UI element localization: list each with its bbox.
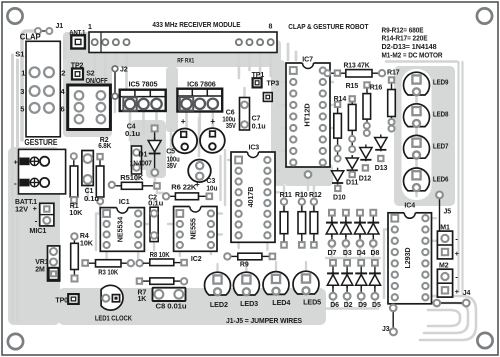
resistor R13 47K — [325, 70, 386, 77]
svg-text:+: + — [14, 160, 18, 167]
label C5 100u 35V — [166, 149, 179, 171]
cathode pad D13 — [378, 156, 383, 161]
svg-text:D6: D6 — [330, 302, 339, 309]
svg-text:R3 10K: R3 10K — [98, 270, 118, 277]
cathode pad D12 — [363, 165, 368, 170]
copper pour: below IC7 — [284, 164, 333, 186]
capacitor C3 10u — [188, 160, 211, 183]
svg-text:C3: C3 — [206, 178, 215, 185]
svg-text:-: - — [14, 179, 17, 188]
svg-text:GESTURE: GESTURE — [24, 138, 57, 147]
label S2 ON/OFF — [86, 71, 109, 86]
switch S1 — [26, 41, 60, 137]
svg-text:35V: 35V — [226, 123, 236, 130]
trace IC1 IC2 pad stubs — [96, 214, 103, 251]
svg-text:LED1 CLOCK: LED1 CLOCK — [95, 315, 132, 322]
svg-text:R9: R9 — [240, 262, 249, 269]
trace IC3 pad stubs — [228, 159, 235, 161]
trace IC7 pad stubs — [279, 81, 289, 83]
svg-text:1N4007: 1N4007 — [130, 161, 152, 168]
cathode pad D11 — [350, 172, 355, 177]
trace IC3 area — [237, 239, 239, 248]
svg-text:0.1u: 0.1u — [252, 123, 266, 130]
via pad below IC7 — [305, 171, 312, 178]
svg-text:R13 47K: R13 47K — [344, 63, 370, 70]
svg-text:D13: D13 — [375, 165, 388, 172]
svg-text:12V: 12V — [15, 207, 28, 214]
resistor R12 — [310, 199, 318, 248]
svg-text:C1: C1 — [85, 188, 94, 195]
antenna pad ANT.1 — [71, 35, 85, 48]
label C6 100u 35V — [222, 109, 236, 130]
svg-text:S2: S2 — [86, 71, 95, 78]
diode D6 — [327, 260, 338, 300]
mounting hole top-right — [477, 8, 492, 23]
svg-text:TP1: TP1 — [252, 72, 265, 79]
svg-text:D5: D5 — [372, 302, 381, 309]
svg-text:D1: D1 — [139, 152, 148, 159]
svg-text:R17: R17 — [387, 70, 400, 77]
svg-text:TP3: TP3 — [267, 81, 280, 88]
svg-text:BATT.1: BATT.1 — [15, 199, 37, 206]
capacitor C2 0.1u — [150, 207, 158, 241]
jumper J4 — [434, 300, 470, 307]
svg-text:R8 10K: R8 10K — [150, 252, 170, 259]
svg-text:J3: J3 — [382, 326, 390, 333]
motor connector M1 — [437, 231, 452, 259]
svg-text:IC3: IC3 — [249, 145, 260, 152]
svg-text:HT12D: HT12D — [303, 103, 312, 127]
resistor R17 — [388, 77, 396, 131]
svg-text:RF RX1: RF RX1 — [177, 58, 194, 65]
resistor R11 — [280, 199, 288, 248]
svg-text:D10: D10 — [333, 195, 346, 202]
svg-text:2M: 2M — [35, 267, 45, 274]
LED LED6 — [404, 168, 430, 191]
copper pour: C4-D1 strip — [130, 120, 166, 170]
svg-text:5: 5 — [20, 104, 24, 113]
svg-text:NE5534: NE5534 — [116, 217, 125, 242]
diode D3 — [340, 210, 351, 247]
trace IC6 pads down — [185, 108, 188, 136]
copper pour: LED column block — [394, 66, 455, 206]
trace legend bottom horizontal — [386, 60, 457, 63]
svg-text:10K: 10K — [80, 241, 93, 248]
svg-text:6.8K: 6.8K — [98, 143, 111, 150]
LED LED7 — [404, 135, 430, 158]
trace D1 R5 R6 stubs — [154, 176, 156, 182]
svg-text:R16: R16 — [370, 84, 383, 91]
svg-text:LED6: LED6 — [433, 177, 449, 184]
jumper J5 — [436, 192, 443, 232]
S1 pin numbers — [20, 69, 65, 114]
svg-text:D9: D9 — [358, 302, 367, 309]
svg-text:35V: 35V — [167, 163, 177, 170]
svg-text:TP2: TP2 — [71, 62, 84, 69]
svg-text:R11: R11 — [280, 192, 292, 199]
LED keepout channel — [402, 69, 432, 200]
svg-text:C6: C6 — [226, 109, 235, 116]
svg-text:L293D: L293D — [403, 247, 412, 268]
LED LED1 — [101, 285, 123, 310]
svg-text:-: - — [35, 216, 38, 225]
copper pour: left column — [8, 147, 60, 325]
label C4 0.1u — [125, 124, 140, 139]
cathode bars row1 — [326, 222, 338, 224]
svg-text:C8 0.01u: C8 0.01u — [156, 304, 187, 311]
RF receiver module RF RX1 — [89, 32, 277, 53]
test point TP2 — [72, 69, 83, 80]
label BATT.1 12V — [15, 199, 37, 214]
svg-text:R1: R1 — [70, 203, 79, 210]
capacitor C4 — [132, 146, 142, 174]
resistor R10 — [298, 199, 306, 248]
diode D2 — [341, 260, 352, 300]
resistor R2 6.8K — [96, 154, 104, 204]
resistor R3 10K — [82, 260, 142, 267]
diode D9 — [356, 260, 367, 300]
capacitor C5 100u — [172, 129, 197, 154]
label C3 10u — [206, 178, 217, 192]
copper pour: RF module band — [63, 40, 281, 67]
svg-text:R510K: R510K — [120, 175, 143, 182]
svg-text:LED7: LED7 — [433, 143, 449, 150]
test point TP3 — [263, 93, 272, 102]
svg-text:10K: 10K — [69, 210, 82, 217]
svg-text:IC4: IC4 — [404, 203, 415, 210]
svg-text:LED2: LED2 — [210, 302, 228, 309]
svg-text:+: + — [210, 116, 215, 126]
svg-text:+: + — [455, 249, 460, 258]
cathode pad D10 — [335, 186, 340, 191]
microphone connector MIC1 — [40, 203, 54, 226]
label C2 0.1u — [148, 194, 163, 207]
svg-text:J5: J5 — [444, 209, 452, 216]
diode D8 — [368, 210, 379, 247]
svg-text:1: 1 — [88, 24, 92, 31]
svg-text:3: 3 — [20, 87, 24, 96]
regulator IC6 — [177, 89, 222, 112]
svg-text:VR1: VR1 — [35, 259, 49, 266]
trace from J1 down left side — [22, 31, 36, 140]
svg-text:MIC1: MIC1 — [29, 228, 46, 235]
resistor R8 10K — [143, 259, 187, 266]
svg-text:NE555: NE555 — [188, 218, 197, 240]
capacitor C7 — [240, 98, 250, 131]
svg-text:D3: D3 — [343, 250, 352, 257]
svg-text:0.1u: 0.1u — [84, 196, 99, 203]
trace R1 R2 area — [86, 183, 88, 200]
svg-text:-: - — [455, 272, 458, 281]
svg-text:LED3: LED3 — [240, 301, 258, 308]
resistor R1 10K — [70, 153, 78, 203]
svg-text:J4: J4 — [463, 290, 471, 297]
copper pour: mid strip between IC5 and IC6 — [166, 67, 178, 132]
svg-text:S1: S1 — [15, 50, 24, 59]
switch S2 — [68, 85, 111, 130]
resistor R9 — [224, 253, 275, 260]
svg-text:10u: 10u — [206, 186, 217, 193]
svg-text:-: - — [455, 234, 458, 243]
svg-text:R12: R12 — [309, 192, 322, 199]
LED LED4 — [263, 272, 289, 295]
svg-text:J1: J1 — [56, 23, 64, 30]
svg-text:D7: D7 — [328, 250, 337, 257]
resistor R14 — [334, 102, 342, 162]
label D1 1N4007 — [130, 152, 152, 168]
battery connector BATT.1 — [19, 149, 66, 194]
trace IC5 pads down — [129, 108, 132, 140]
svg-text:CLAP & GESTURE ROBOT: CLAP & GESTURE ROBOT — [288, 22, 369, 31]
svg-text:C4: C4 — [127, 124, 136, 131]
trace diode rows link — [331, 245, 333, 260]
svg-text:IC5 7805: IC5 7805 — [129, 79, 158, 88]
trace left of IC3 verticals — [224, 150, 226, 205]
svg-text:+: + — [33, 206, 37, 213]
copper pour: IC7 left strip — [271, 60, 285, 186]
IC U2 NE555 — [174, 205, 217, 251]
LED LED5 — [293, 271, 319, 294]
resistor R15 — [348, 96, 356, 152]
IC U1 NE5534 — [100, 199, 144, 251]
copper pour: S2 column — [63, 32, 112, 137]
test point TP0 — [68, 294, 79, 304]
trace IC4 pad stubs — [384, 230, 391, 299]
resistor R16 — [363, 82, 371, 136]
jumper J3 — [390, 305, 397, 336]
svg-text:R15: R15 — [346, 83, 359, 90]
label R7 1K — [138, 289, 147, 303]
svg-text:D8: D8 — [371, 250, 380, 257]
diode D1 1N4007 — [148, 125, 161, 176]
mounting hole top-left — [7, 8, 22, 23]
label C1 0.1u — [84, 188, 99, 203]
svg-text:1: 1 — [21, 69, 25, 78]
svg-text:8: 8 — [269, 24, 273, 31]
svg-text:0.1u: 0.1u — [125, 131, 140, 138]
test point TP1 — [253, 78, 262, 87]
svg-text:4017B: 4017B — [246, 187, 255, 208]
trace IC1 IC2 area — [105, 249, 107, 258]
jumper J2 — [112, 66, 118, 99]
motor connector M2 — [437, 269, 452, 297]
svg-text:J1-J5 = JUMPER WIRES: J1-J5 = JUMPER WIRES — [226, 318, 302, 325]
label R4 10K — [80, 233, 93, 248]
IC U3 4017B — [231, 145, 275, 243]
mounting hole bottom-right — [477, 333, 492, 348]
diode D4 — [354, 210, 365, 247]
svg-text:1K: 1K — [138, 296, 147, 303]
trace bottom-right loops — [420, 296, 476, 340]
trace right verticals — [457, 62, 459, 292]
svg-text:R4: R4 — [80, 233, 89, 240]
svg-text:2: 2 — [61, 69, 65, 78]
resistor R6 22K — [163, 193, 212, 200]
trace stubs S1 circles — [33, 77, 35, 134]
trace module pads down — [93, 46, 96, 70]
svg-text:TP0: TP0 — [55, 298, 68, 305]
svg-text:D2: D2 — [344, 302, 353, 309]
svg-text:LED9: LED9 — [433, 80, 449, 87]
LED LED3 — [233, 272, 259, 295]
label R1 10K — [69, 203, 82, 217]
LED LED2 — [205, 272, 231, 295]
trace bridge horizontals — [326, 257, 380, 259]
svg-text:0.1u: 0.1u — [148, 201, 163, 208]
trace right of S1 — [63, 42, 66, 58]
capacitor C8 0.01u — [153, 288, 186, 301]
svg-text:D11: D11 — [346, 180, 358, 187]
svg-text:6: 6 — [61, 104, 65, 113]
diode D11 — [346, 155, 358, 172]
capacitor C6 100u — [200, 128, 225, 153]
diode D13 — [375, 135, 387, 152]
trace left edge outer — [11, 55, 14, 320]
IC U4 L293D — [388, 203, 432, 304]
svg-text:IC1: IC1 — [119, 199, 130, 206]
trace LED chain vertical — [415, 95, 418, 196]
trace module right to IC7 — [287, 44, 290, 60]
trace LED row stubs — [216, 264, 218, 273]
label C7 0.1u — [252, 115, 266, 130]
svg-text:D12: D12 — [359, 176, 372, 183]
svg-text:CLAP: CLAP — [20, 33, 41, 42]
label R2 6.8K — [98, 137, 111, 150]
copper pour: bottom band — [58, 288, 326, 325]
trace left edge inner — [16, 60, 19, 320]
svg-text:+: + — [455, 287, 460, 296]
svg-text:LED5: LED5 — [303, 300, 321, 307]
jumper J1 — [35, 28, 52, 34]
svg-text:IC2: IC2 — [191, 256, 202, 263]
trace middle misc — [114, 99, 116, 112]
svg-text:LED4: LED4 — [272, 300, 290, 307]
svg-text:D4: D4 — [357, 250, 366, 257]
LED LED8 — [404, 104, 430, 127]
svg-text:J2: J2 — [120, 67, 128, 74]
resistor R7 1K — [137, 278, 188, 285]
capacitor C1 0.1u — [82, 151, 93, 186]
regulator IC5 — [120, 90, 166, 111]
label VR1 2M — [35, 259, 49, 274]
trace below row2 donuts — [332, 299, 334, 307]
svg-text:+: + — [181, 116, 186, 126]
diode D5 — [369, 260, 380, 300]
copper pour: R14-R17 strip — [396, 66, 412, 192]
mounting hole bottom-left — [8, 334, 23, 349]
trace C5 C6 area — [170, 128, 173, 168]
diode D10 — [331, 168, 343, 185]
svg-text:R14: R14 — [334, 96, 347, 103]
resistor R4 10K — [71, 233, 79, 281]
IC U7 HT12D — [286, 56, 330, 167]
diode D7 — [326, 210, 337, 247]
svg-text:LED8: LED8 — [433, 111, 449, 118]
svg-text:IC7: IC7 — [302, 56, 313, 63]
svg-text:C5: C5 — [166, 149, 175, 156]
cathode bars row2 — [327, 272, 339, 274]
svg-text:M1-M2 = DC MOTOR: M1-M2 = DC MOTOR — [382, 50, 444, 59]
svg-text:R6 22K: R6 22K — [171, 185, 196, 192]
LED LED9 — [404, 72, 430, 95]
svg-text:433 MHz RECEIVER MODULE: 433 MHz RECEIVER MODULE — [152, 20, 240, 29]
svg-text:C7: C7 — [252, 115, 261, 122]
svg-text:ANT.1: ANT.1 — [69, 29, 85, 36]
preset VR1 2M — [48, 246, 60, 281]
svg-text:IC6 7806: IC6 7806 — [187, 79, 216, 88]
resistor R5 10K — [109, 182, 160, 190]
svg-text:R10: R10 — [295, 192, 308, 199]
diode D12 — [360, 145, 372, 162]
